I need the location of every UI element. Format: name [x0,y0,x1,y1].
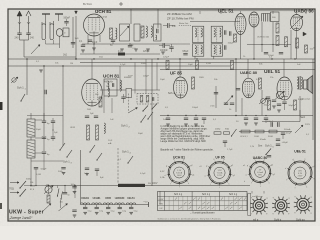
capacitor C36 [264,52,268,54]
svg-text:mA: mA [108,142,112,145]
coil box L7 [27,140,35,158]
svg-text:+50μF: +50μF [282,142,289,144]
wire vertical x63 [62,113,64,146]
svg-text:g2: g2 [313,166,315,168]
svg-text:LW: LW [160,208,163,210]
svg-text:2.Lautspr.: 2.Lautspr. [302,98,312,101]
svg-text:g: g [294,212,295,214]
capacitor C33 [224,30,226,34]
wire bus to UF85 [179,59,181,77]
resistor R3b [234,34,237,42]
narrow column left of rotary [248,194,251,216]
svg-text:ZF 10,7MHz bei FM: ZF 10,7MHz bei FM [167,17,194,21]
svg-text:g1: g1 [273,174,275,176]
svg-text:MW: MW [159,204,163,206]
svg-text:240: 240 [15,37,20,40]
wire vertical x158 [157,9,159,28]
wire FM box top link [27,115,63,117]
switch S1 [20,100,21,101]
svg-text:UCH81: UCH81 [93,197,102,200]
svg-text:UABC 80: UABC 80 [240,70,258,75]
svg-text:und Messe: und Messe [252,196,263,198]
wire antenna to mixer [20,39,29,41]
node antenna junctions [18,22,21,24]
svg-text:g: g [273,197,274,199]
resistor R17 [269,130,277,133]
svg-text:m/l g: m/l g [253,219,259,222]
resistor R4d [305,45,308,53]
svg-text:0,1μ: 0,1μ [134,211,138,213]
svg-text:g1: g1 [233,175,235,177]
svg-text:1MΩ: 1MΩ [199,77,204,79]
svg-text:125pF: 125pF [143,51,150,53]
pot circle below UEL51b [276,91,283,98]
resistor R9 [192,77,195,89]
svg-text:k: k [306,187,307,189]
svg-text:UABC80: UABC80 [115,197,125,200]
switch S11 [19,187,20,188]
wire vertical x152 [151,113,153,186]
tube UF85 [174,77,188,98]
capacitor C3 [64,21,68,23]
svg-text:0,1μ: 0,1μ [122,211,126,213]
capacitor C25b [61,167,65,169]
capacitor C37 [279,52,283,54]
svg-text:g: g [251,213,252,215]
tube UCH81 pins [87,35,89,44]
svg-text:100pF: 100pF [192,107,199,109]
svg-text:200Ω: 200Ω [215,129,221,131]
capacitor C5b [88,39,92,41]
svg-text:90Ω: 90Ω [225,129,229,131]
rotary switch Schl-b [275,200,287,212]
svg-text:125pF: 125pF [163,57,170,59]
variable arrow T2 [120,26,129,36]
tick marks above frame [119,3,123,5]
wire bus y69.5 [160,69,315,71]
dipole bar B1 [42,13,50,15]
top rail drops [199,11,201,14]
resistor R6 [166,61,169,70]
thick choke bar [118,184,145,187]
IF coil L4 [151,26,152,37]
resistor R14 chain [214,132,221,134]
svg-text:UCH 15 mA: UCH 15 mA [257,36,269,39]
wire vertical x236 mid [235,59,237,112]
wire bus y62.5 [80,62,315,64]
svg-text:UKW: UKW [159,199,164,201]
svg-text:Sch 1: Sch 1 [63,160,70,164]
capacitor C30 left of cans [167,23,169,28]
capacitor C31 + label [162,43,164,48]
svg-text:100pF: 100pF [228,43,235,45]
arrow at x76 top [75,11,78,14]
svg-text:g: g [288,213,289,215]
resistor R21 [99,97,102,107]
junctions y115 [167,115,168,116]
wire bus y66 [8,65,230,67]
svg-text:50pF: 50pF [138,133,144,135]
UKW coil L1 hairpin [42,21,46,40]
capacitor C24 [267,155,271,157]
resistor R10 [259,78,262,89]
tube UEL51 (top) [235,14,246,35]
wire vertical x73 [72,17,74,48]
wire h y90 mid [100,89,126,91]
svg-text:g2: g2 [190,165,192,167]
IF can T6 [104,79,117,96]
heater bypass capacitors [84,205,86,208]
wire bus to UEL51b [283,59,285,77]
wires right mid verticals [241,98,243,116]
svg-text:k: k [188,183,189,185]
tube V4 small [249,12,259,27]
svg-text:2kΩ: 2kΩ [87,109,91,111]
wire vertical x27 [26,59,28,95]
svg-text:UEL 51: UEL 51 [218,9,234,14]
capacitor C1 240pF [17,32,21,34]
oscillator triode circle [56,29,62,37]
svg-text:100Ω: 100Ω [254,136,259,138]
capacitor C43 [121,96,125,98]
svg-text:0,1μ: 0,1μ [88,211,92,213]
IF coil L2 [116,28,117,39]
svg-text:560pF: 560pF [64,18,71,20]
capacitor C27 [72,209,76,211]
antenna A1 dipole [17,11,22,16]
svg-text:g: g [288,197,289,199]
svg-text:„Zwerge 1und2“: „Zwerge 1und2“ [8,216,33,220]
IF can T3b box [154,24,162,41]
arrow pot lower [43,204,52,212]
switch S5 [59,149,60,150]
wire top rail y10.8 [96,10,313,12]
svg-text:10pF: 10pF [160,79,166,81]
svg-text:g2: g2 [231,165,233,167]
svg-text:UABC 80: UABC 80 [294,9,314,14]
svg-text:Sch 1: Sch 1 [17,86,24,90]
svg-text:g: g [251,197,252,199]
svg-text:0,1μF: 0,1μF [140,173,146,175]
svg-text:0,5M: 0,5M [36,174,41,176]
table contact dots [175,198,177,199]
svg-text:g1: g1 [313,178,315,180]
svg-text:0,1μF: 0,1μF [120,64,126,66]
box with value 360 [271,12,280,22]
capacitor C10 [266,96,270,98]
ground G3 [39,69,43,71]
svg-text:0,1μ: 0,1μ [111,211,115,213]
svg-text:235V: 235V [298,175,303,177]
IF can T4a [193,26,204,42]
IF coil L3 [146,26,147,37]
resistor R1 [110,28,113,39]
capacitor C28b + ground [95,168,99,170]
capacitor C5c [111,39,115,41]
junction dots on buses [75,58,76,59]
capacitor C25c [63,192,67,194]
resistor R20 [268,100,271,110]
wire far right vertical [312,59,314,140]
wire x75 to bus [74,186,76,199]
svg-text:UEL 51: UEL 51 [294,150,306,154]
wire heater right [159,191,161,205]
tube UABC80 (2) [242,78,254,98]
flag under tube [303,32,307,36]
coil box L6 [27,119,35,137]
electrolytic C23 [276,138,280,140]
wire x63 upper [62,66,64,113]
arrow through tube [290,16,303,29]
svg-text:UCH 81: UCH 81 [95,9,112,14]
box small mixer [126,89,132,98]
svg-text:g: g [295,196,296,198]
capacitor C13 trimmer [42,120,46,122]
switch S13 pair [57,195,58,196]
resistor R16 [255,130,264,133]
tube UABC80 (top) [291,15,303,31]
svg-text:0,1μ: 0,1μ [99,211,103,213]
svg-text:100V: 100V [177,175,182,177]
svg-text:170V: 170V [217,175,222,177]
capacitor C2 240pF [26,32,30,34]
IF can T5a [211,26,222,42]
tube UCH81 (2) [82,79,103,106]
UKW coil L2 hairpin [50,21,54,40]
capacitor C42 [282,101,286,103]
switch S4 [225,96,233,105]
capacitor C17 [85,115,89,117]
ground G5 [161,51,165,53]
svg-text:50μF: 50μF [289,105,295,107]
wire x31 to bus [30,168,32,186]
svg-text:1kΩ: 1kΩ [63,55,67,57]
svg-text:240: 240 [30,37,35,40]
coil L5 [120,80,121,91]
capacitor C26 stack [72,186,76,188]
grounds below IF strip [120,48,124,50]
mixer box [63,28,69,37]
switch S10 [265,154,266,155]
capacitor C35 [229,31,231,35]
tube pins UEL51 top [240,35,242,45]
svg-text:UEL 51: UEL 51 [264,69,281,75]
wire x152 upper [151,59,153,113]
heater terminal [141,204,149,206]
resistor R7 [196,61,199,70]
vertical wire x76 [75,16,77,59]
wire tube1 anode down [93,46,95,54]
svg-text:ZF 468kHz bei AM: ZF 468kHz bei AM [167,12,192,16]
wire y44 extension right [160,43,190,45]
junction dots left bus [26,58,27,59]
wire UABC80top down [296,31,298,60]
svg-text:220V: 220V [305,124,311,126]
svg-text:k: k [269,182,270,184]
svg-text:300Ω: 300Ω [141,63,147,65]
wire top-left bus [24,56,76,58]
wire UEL51top down [240,44,242,59]
svg-text:2pF: 2pF [90,113,94,115]
svg-text:k: k [244,181,245,183]
svg-text:Schliessen v. d. Darm m. die B: Schliessen v. d. Darm m. die Bestell gle… [158,217,221,220]
wire x44 column [43,66,45,120]
capacitor C16b [51,136,55,138]
IF can T5b [211,44,222,56]
capacitor C14 [42,136,46,138]
switch S6 [140,121,141,122]
capacitor C40 + ground bus115 [194,117,198,119]
svg-text:5kΩ: 5kΩ [99,57,103,59]
svg-text:300Ω: 300Ω [268,136,273,138]
antenna A2 [26,11,31,16]
capacitor hangers C21x [244,117,248,119]
wire y54 left [80,53,160,55]
socket UEL51 [288,161,312,185]
svg-text:100pF: 100pF [143,76,150,78]
table group separators [164,192,166,211]
capacitor C4 [71,42,75,44]
svg-text:Sch 1 g: Sch 1 g [174,193,183,196]
switch S8 [89,151,90,152]
svg-text:Ratio Det.: Ratio Det. [179,22,189,25]
switch S7 [127,162,128,163]
wire lowerleft links [24,185,45,187]
capacitor C11 [272,99,276,101]
svg-text:BV 1,4mA: BV 1,4mA [97,16,107,19]
capacitor C6 [156,29,158,34]
capacitor C41 [202,117,206,119]
svg-text:Sen: Sen [258,145,263,148]
IF can T4b [193,44,204,56]
switch S3b [142,110,143,111]
svg-text:g1: g1 [192,175,194,177]
tube UCH81 (1) [84,14,105,36]
table row lines [158,200,248,202]
resistor R8 [231,61,234,70]
wire x44 lower [43,153,45,170]
wires top right verticals [272,22,274,52]
svg-text:70Ω: 70Ω [9,187,14,191]
svg-text:⌤2V: ⌤2V [143,201,148,204]
wire antenna coil links [45,40,47,44]
svg-text:g: g [266,197,267,199]
ground G1b [92,47,96,49]
capacitor C9 [224,102,228,104]
svg-text:1,7μF: 1,7μF [227,149,233,151]
wire netz loop [299,110,301,122]
svg-text:Lange Welle bei Osz. 1620 kHz: Lange Welle bei Osz. 1620 kHz abgl. MW. [161,140,207,143]
table column lines [168,196,170,210]
rotary switch Schl-c [297,198,309,210]
capacitor C8 [44,90,46,95]
resistor R4c [296,38,299,48]
svg-text:10pF: 10pF [92,42,98,44]
resistor R15 [241,130,250,133]
svg-text:UEL51: UEL51 [127,197,135,200]
wire y21.5 cans [190,21,240,23]
socket UF85 [208,162,230,184]
svg-text:100μF: 100μF [286,133,292,135]
wire power h y131.5 [239,131,292,133]
wire x216 vertical [215,86,217,108]
transformer TR1 [297,77,299,89]
svg-text:UCH 0,1: UCH 0,1 [240,136,249,138]
heater chain coils [81,204,142,206]
resistor R2 [141,26,144,38]
resistor R12 [87,125,90,140]
coil L5b [108,88,110,97]
svg-text:Sch 1: Sch 1 [168,91,175,95]
terminal arrows input [10,182,19,184]
capacitor C12 [277,103,281,105]
capacitor C15 [42,151,46,153]
choke blob [118,53,125,56]
wire bus to UCH81b [91,59,93,79]
svg-text:460kHz: 460kHz [124,77,131,79]
svg-text:Sch 1: Sch 1 [265,144,272,148]
svg-text:Bv 5mA: Bv 5mA [83,3,92,6]
svg-text:UF85: UF85 [105,197,112,200]
rotary switch Schl-a [253,200,265,212]
svg-text:g: g [310,212,311,214]
wire vertical x80 low [80,150,82,203]
wire main bus y59 [8,58,315,60]
svg-text:Sch 1 g: Sch 1 g [202,193,211,196]
svg-text:UF 85: UF 85 [170,71,183,76]
table header line [158,195,248,197]
grid cap C5 [81,44,85,46]
svg-text:Bauteile mit * siehe Tabelle d: Bauteile mit * siehe Tabelle der Röhren … [161,149,215,152]
wire vertical x131 [130,9,132,24]
socket UCH81 [168,162,190,184]
capacitor C38 [169,46,173,48]
svg-text:UCH 81: UCH 81 [103,74,120,79]
wire verticals under UCH81b [103,96,105,113]
svg-text:Schl gg: Schl gg [296,218,305,222]
wire V4 down [253,27,255,59]
capacitor C19 + ground [184,117,188,119]
capacitor C22 [281,132,285,134]
wire under tube1 [82,43,160,45]
IF can T3 box [134,24,140,41]
svg-text:Sch 1 g: Sch 1 g [229,193,238,196]
svg-text:Sch 1: Sch 1 [121,124,128,128]
wire bus to UABC80b [247,59,249,78]
potentiometer arrow P2 [295,125,303,133]
resistor R11 [294,100,297,110]
svg-text:UKW - Super: UKW - Super [9,209,44,215]
table frame [158,192,248,211]
comb grid pins [261,14,263,22]
svg-text:500mA: 500mA [284,128,291,131]
FM box jumpers [35,119,42,121]
svg-text:300pF: 300pF [267,121,274,123]
svg-text:65mA: 65mA [260,138,266,141]
svg-text:0,5M: 0,5M [206,63,211,65]
resistor R3 [276,23,279,33]
svg-text:Sch 1: Sch 1 [122,150,129,154]
svg-text:30pF: 30pF [36,129,42,131]
arrow pot P4 [59,204,68,212]
wire bus y115.5 [160,115,313,117]
wire pots to bus185 [48,186,50,195]
resistor R4a [276,36,279,46]
svg-text:g: g [266,213,267,215]
vertical dashdot x118 [117,148,119,184]
svg-text:6,3V: 6,3V [160,171,165,173]
wire FM box bottom link [31,160,63,162]
